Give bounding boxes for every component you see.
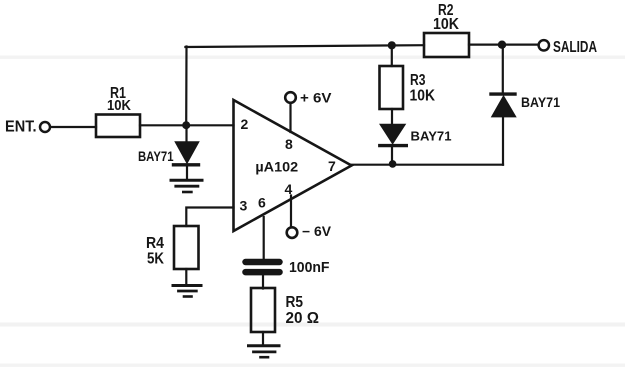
svg-text:R3: R3 bbox=[410, 72, 426, 89]
ground under D1 bbox=[171, 179, 202, 182]
resistor R2 bbox=[424, 33, 469, 57]
node -6V terminal bbox=[287, 227, 298, 238]
faint scan streak top bbox=[0, 56, 625, 59]
wire D2 to output junction bbox=[391, 147, 393, 163]
svg-text:R4: R4 bbox=[146, 235, 164, 252]
diode D1 BAY71 bbox=[176, 142, 199, 163]
diode D3 BAY71 bbox=[492, 96, 515, 116]
resistor R1 bbox=[96, 115, 140, 138]
svg-text:BAY71: BAY71 bbox=[411, 129, 452, 144]
wire R1 to op-amp pin 2 bbox=[140, 124, 234, 126]
wire capacitor to R5 bbox=[262, 275, 264, 288]
node junction R3 top bbox=[388, 41, 396, 49]
wire pin 4 to -6V terminal bbox=[290, 196, 292, 228]
wire R4 to ground bbox=[185, 269, 187, 285]
resistor R5 bbox=[251, 288, 275, 332]
ground under R5 bbox=[249, 344, 280, 347]
ground under R4 bbox=[173, 284, 201, 287]
wire R5 to ground bbox=[262, 332, 264, 345]
wire input junction to diode D1 bbox=[185, 126, 187, 142]
resistor R4 bbox=[174, 226, 199, 269]
wire feedback top horizontal bbox=[185, 45, 424, 47]
svg-text:10K: 10K bbox=[107, 97, 131, 114]
svg-text:µA102: µA102 bbox=[255, 160, 298, 175]
resistor R3 bbox=[380, 66, 404, 109]
wire R3 to diode D2 bbox=[391, 109, 393, 125]
node +6V terminal bbox=[285, 92, 296, 103]
wire input junction up to feedback line bbox=[185, 47, 188, 126]
diode D2 BAY71 bbox=[380, 125, 405, 144]
wire R3 branch from top junction bbox=[391, 45, 393, 66]
svg-text:− 6V: − 6V bbox=[302, 224, 331, 239]
svg-text:8: 8 bbox=[285, 136, 293, 152]
svg-text:BAY71: BAY71 bbox=[521, 95, 560, 110]
capacitor C1 100nF bbox=[246, 259, 280, 266]
svg-text:BAY71: BAY71 bbox=[138, 149, 174, 164]
svg-text:6: 6 bbox=[258, 195, 266, 211]
wire ENT to R1 bbox=[51, 126, 97, 128]
node input junction bbox=[182, 121, 190, 129]
wire pin 8 to +6V terminal bbox=[289, 103, 291, 132]
svg-text:5K: 5K bbox=[147, 251, 165, 268]
wire op-amp output pin 7 bbox=[352, 164, 504, 166]
svg-text:10K: 10K bbox=[433, 16, 460, 33]
wire D3 to output wire bbox=[502, 117, 504, 165]
svg-text:ENT.: ENT. bbox=[5, 119, 37, 136]
svg-text:20 Ω: 20 Ω bbox=[286, 310, 320, 327]
svg-text:3: 3 bbox=[240, 198, 248, 214]
node junction output top bbox=[498, 41, 506, 49]
op-amp U1 uA102 bbox=[234, 100, 352, 231]
svg-text:2: 2 bbox=[241, 116, 249, 132]
faint scan streak lower bbox=[0, 323, 625, 327]
node ENT terminal bbox=[40, 122, 50, 132]
node SALIDA terminal bbox=[539, 40, 549, 50]
wire op-amp pin 3 to R4 bbox=[186, 208, 233, 227]
wire pin 6 to capacitor C1 bbox=[263, 217, 265, 260]
svg-text:7: 7 bbox=[328, 158, 336, 174]
wire R2 to SALIDA bbox=[469, 43, 539, 45]
node output junction bbox=[389, 160, 397, 168]
svg-text:SALIDA: SALIDA bbox=[553, 39, 597, 56]
svg-text:10K: 10K bbox=[410, 88, 436, 105]
svg-text:R5: R5 bbox=[286, 294, 304, 311]
wire right branch from top junction to D3 bbox=[502, 45, 504, 93]
svg-text:100nF: 100nF bbox=[289, 260, 330, 276]
faint scan streak bottom bbox=[0, 364, 625, 367]
svg-text:+ 6V: + 6V bbox=[300, 90, 332, 105]
